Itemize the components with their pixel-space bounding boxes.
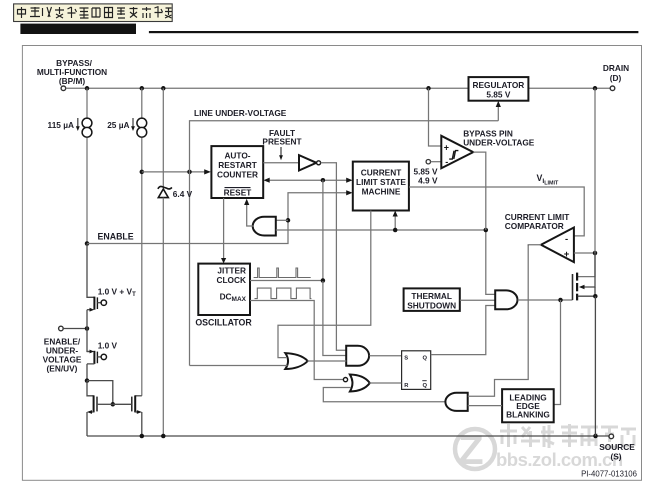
arrowhead into auto-restart counter xyxy=(204,169,211,174)
arrowhead into state machine left xyxy=(346,178,352,183)
wire enable node to reset AND input xyxy=(276,219,288,221)
comparator U15 bypass pin under-voltage xyxy=(441,136,473,169)
power MOSFET Q5 body arrow xyxy=(583,253,595,287)
input terminal circle 5.85/4.9 xyxy=(426,160,430,164)
pin terminal BP/M xyxy=(61,86,66,91)
wire BP/M to current source I1 xyxy=(86,88,88,118)
leading edge blanking box U12 xyxy=(502,389,554,422)
node junction line under-voltage tap xyxy=(187,170,192,175)
svg-text:25 µA: 25 µA xyxy=(107,120,129,130)
tooltip box xyxy=(14,4,173,22)
arrow fault present down to fault wire xyxy=(280,147,282,156)
transistor Q3 mirror left xyxy=(87,381,113,436)
wire oscillator dcmax output xyxy=(250,301,343,380)
svg-text:LINE UNDER-VOLTAGE: LINE UNDER-VOLTAGE xyxy=(194,108,287,118)
svg-text:1.0 V: 1.0 V xyxy=(98,340,118,350)
reset AND gate U3 (mirrored) xyxy=(253,217,276,236)
wire source down to rail xyxy=(594,296,596,436)
svg-text:LIMIT STATE: LIMIT STATE xyxy=(356,177,406,187)
auto-restart counter box U1 xyxy=(211,146,263,198)
svg-text:4.9 V: 4.9 V xyxy=(418,176,438,186)
zener diode VR1 6.4V xyxy=(158,186,172,197)
label BYPASS PIN UNDER-VOLTAGE xyxy=(463,129,535,148)
svg-text:COMPARATOR: COMPARATOR xyxy=(505,221,564,231)
inverter output bubble xyxy=(317,161,321,165)
node junction bypass-ok xyxy=(484,228,489,233)
node junction BP/M-115uA xyxy=(85,86,90,91)
OR gate U7 (enable/uv combine) xyxy=(285,353,307,369)
svg-text:115 µA: 115 µA xyxy=(48,120,74,130)
svg-text:BLANKING: BLANKING xyxy=(506,410,550,420)
current limit state machine box U4 xyxy=(353,162,409,211)
regulator box U14 xyxy=(469,77,529,101)
svg-text:AUTO-: AUTO- xyxy=(224,151,250,161)
svg-text:DRAIN: DRAIN xyxy=(603,63,629,73)
wire line under-voltage vertical xyxy=(190,121,499,366)
node junction 25uA branch xyxy=(140,86,145,91)
svg-text:PI-4077-013106: PI-4077-013106 xyxy=(581,470,637,479)
wire zener branch xyxy=(162,88,164,187)
arrowhead enable into state machine xyxy=(346,190,352,195)
wire current source I1 to enable node xyxy=(86,138,88,244)
gate terminal circle Q2 xyxy=(101,354,106,359)
current source I2 arrow xyxy=(132,118,134,127)
wire enable to state machine riser xyxy=(87,193,350,244)
wire gate node down to leading edge blanking xyxy=(554,300,561,405)
tooltip CJK text (glyph approximations) xyxy=(18,7,173,19)
wire thermal shutdown to gate-drive AND xyxy=(460,299,496,301)
arrowhead into counter right xyxy=(263,178,269,183)
wire oscillator clock output xyxy=(250,280,323,282)
svg-text:SOURCE: SOURCE xyxy=(599,442,635,452)
transistor Q2 UV sense FET xyxy=(87,329,101,381)
arrowhead into regulator bottom xyxy=(496,101,501,107)
wire zener to bottom rail xyxy=(162,198,164,436)
current source I1 115uA symbol xyxy=(82,118,92,128)
wire clock to pwm AND gate xyxy=(323,281,347,356)
svg-text:-: - xyxy=(445,157,448,167)
svg-text:1.0 V + VT: 1.0 V + VT xyxy=(98,287,136,299)
svg-text:REGULATOR: REGULATOR xyxy=(473,80,525,90)
sr latch U8 xyxy=(402,351,431,390)
pwm AND gate U6 xyxy=(346,346,369,366)
node junction zener branch xyxy=(161,86,166,91)
browser tooltip bar (black) xyxy=(20,24,136,34)
wire BP/M top rail xyxy=(66,87,469,89)
overline for Q-bar xyxy=(422,380,426,382)
node junction mirror gate feed xyxy=(85,378,90,383)
clock waveform glyph xyxy=(254,268,311,278)
wire line-uv to OR bottom input xyxy=(190,365,288,367)
power MOSFET Q5 source tap xyxy=(578,287,596,296)
wire LEB output to blanking AND input xyxy=(468,405,502,407)
node junction EN/UV xyxy=(85,326,90,331)
wire gate drive to power FET gate xyxy=(518,299,573,301)
pin ENABLE/UNDER-VOLTAGE (EN/UV) label xyxy=(43,337,82,374)
wire counter to oscillator arrow xyxy=(223,198,225,260)
current source I2 25uA symbol xyxy=(137,118,147,128)
wire latch Q to gate-drive AND xyxy=(431,306,496,355)
wire state machine to pwm OR path xyxy=(278,211,371,358)
svg-text:Q: Q xyxy=(423,383,428,389)
arrowhead into counter bottom (reset) xyxy=(244,199,249,205)
node junction clock output xyxy=(321,278,326,283)
wire reset AND output to counter reset xyxy=(247,203,254,227)
wire clock riser xyxy=(322,180,324,280)
wire bottom source rail xyxy=(87,435,609,437)
svg-text:JITTER: JITTER xyxy=(217,265,246,275)
comparator U16 current limit xyxy=(541,228,574,263)
svg-text:5.85 V: 5.85 V xyxy=(486,90,510,100)
arrowhead into oscillator top xyxy=(221,258,226,263)
transistor Q1 EN sense FET xyxy=(87,244,101,329)
wire comparator result to blanking AND top input xyxy=(468,245,528,396)
wire pwm AND to latch S xyxy=(369,355,401,357)
node junction enable to reset AND gate xyxy=(286,218,291,223)
oscillator box U5 xyxy=(198,264,250,315)
pin DRAIN (D) label xyxy=(603,63,629,83)
OR gate U9 with inverted input xyxy=(350,375,370,392)
svg-text:-: - xyxy=(565,234,568,245)
wire fault line to pwm AND gate xyxy=(321,163,347,350)
node junction drain sense xyxy=(593,251,598,256)
svg-text:S: S xyxy=(404,355,408,361)
node junction enable xyxy=(85,241,90,246)
power MOSFET Q5 gate bar xyxy=(572,274,574,300)
svg-text:+: + xyxy=(564,249,570,260)
node junction rail zener xyxy=(161,434,166,439)
svg-text:RESET: RESET xyxy=(224,188,252,198)
wire top rail right of regulator to DRAIN xyxy=(529,87,611,89)
svg-text:Z: Z xyxy=(458,426,484,473)
wire blanked current-limit to U9 bottom input xyxy=(323,388,446,402)
wire OR output to pwm AND xyxy=(308,360,347,362)
wire bypass sense to comparator plus xyxy=(429,88,442,146)
svg-text:RESTART: RESTART xyxy=(218,160,257,170)
thermal shutdown box U10 xyxy=(404,288,460,311)
wire threshold to comparator minus xyxy=(431,161,442,163)
svg-text:Q: Q xyxy=(423,355,428,361)
wire bypass-ok line to reset AND input xyxy=(276,229,486,231)
svg-text:(EN/UV): (EN/UV) xyxy=(47,364,78,374)
overline for RESET xyxy=(225,187,251,189)
wire clock double-arrow line counter/state machine xyxy=(266,179,350,181)
wire U9 output to latch R xyxy=(370,382,402,384)
node junction drain xyxy=(593,86,598,91)
wire EN/UV pin to divider xyxy=(63,328,87,330)
inverter U2 xyxy=(299,155,316,170)
wire BP/M sense to auto-restart counter xyxy=(142,171,209,173)
svg-text:SHUTDOWN: SHUTDOWN xyxy=(407,301,456,311)
wire comparator output down xyxy=(528,245,541,246)
hysteresis glyph U15 xyxy=(449,151,458,159)
wire BP/M to current source I2 xyxy=(141,88,143,118)
power MOSFET Q5 channel dashes xyxy=(576,273,578,301)
node junction comparator line to state machine xyxy=(393,228,398,233)
wire current source I2 down to mirror M4 xyxy=(141,138,143,396)
wire line under-voltage to regulator arrow xyxy=(497,105,499,121)
svg-text:(BP/M): (BP/M) xyxy=(59,76,86,86)
transistor Q4 mirror right xyxy=(113,395,142,436)
svg-text:OSCILLATOR: OSCILLATOR xyxy=(195,317,252,327)
node junction clock riser xyxy=(321,178,326,183)
svg-text:bbs.zol.com.cn: bbs.zol.com.cn xyxy=(496,449,623,470)
node junction mirror gates xyxy=(111,402,116,407)
wire comparator plus to drain sense xyxy=(574,252,595,254)
wire counter output to inverter xyxy=(263,162,299,164)
svg-text:UNDER-VOLTAGE: UNDER-VOLTAGE xyxy=(463,138,535,148)
arrowhead into state machine bottom xyxy=(393,211,398,217)
wire state machine bottom comparator feed arrow xyxy=(394,214,396,230)
pin terminal SOURCE xyxy=(609,434,614,439)
node junction gate drive to LEB xyxy=(558,298,563,303)
gate-drive AND gate U11 xyxy=(495,290,517,309)
wire drain vertical xyxy=(578,88,595,276)
svg-text:PRESENT: PRESENT xyxy=(262,137,301,147)
node junction source/body xyxy=(593,294,598,299)
blanking AND gate U13 (mirrored) xyxy=(445,393,467,411)
label 5.85 V / 4.9 V xyxy=(414,167,438,186)
wire state machine ilimit to comparator minus xyxy=(409,187,584,236)
dcmax waveform glyph xyxy=(255,288,312,299)
pin SOURCE (S) label xyxy=(599,442,635,462)
node junction regulator input sense xyxy=(426,86,431,91)
pin terminal DRAIN xyxy=(610,86,615,91)
pin BYPASS/MULTI-FUNCTION (BP/M) label xyxy=(37,58,107,86)
watermark zol.com.cn logo and text xyxy=(455,424,636,473)
gate terminal circle Q1 xyxy=(101,300,106,305)
current source I1 arrow xyxy=(77,118,79,127)
node junction rail power FET source xyxy=(593,434,598,439)
svg-text:CLOCK: CLOCK xyxy=(217,275,247,285)
node junction rail 25uA xyxy=(140,434,145,439)
wire comparator output to bypass-ok node xyxy=(473,152,486,230)
svg-text:CURRENT: CURRENT xyxy=(361,168,402,178)
wire mirror diode connection xyxy=(87,381,113,405)
svg-text:COUNTER: COUNTER xyxy=(217,170,258,180)
svg-text:(D): (D) xyxy=(610,73,622,83)
wire bypass-ok to gate-drive AND top input xyxy=(486,230,496,294)
svg-text:ENABLE: ENABLE xyxy=(98,232,134,242)
label CURRENT LIMIT COMPARATOR xyxy=(505,212,570,231)
svg-text:THERMAL: THERMAL xyxy=(411,291,452,301)
svg-text:6.4 V: 6.4 V xyxy=(173,189,193,199)
inverted input bubble U9 xyxy=(343,378,347,382)
svg-text:+: + xyxy=(444,143,449,153)
svg-text:(S): (S) xyxy=(610,452,621,462)
node junction 25uA line to counter feed xyxy=(140,170,145,175)
label FAULT PRESENT xyxy=(262,128,301,147)
pin terminal EN/UV xyxy=(59,326,64,331)
svg-text:MACHINE: MACHINE xyxy=(362,187,401,197)
top rule line xyxy=(149,31,639,33)
